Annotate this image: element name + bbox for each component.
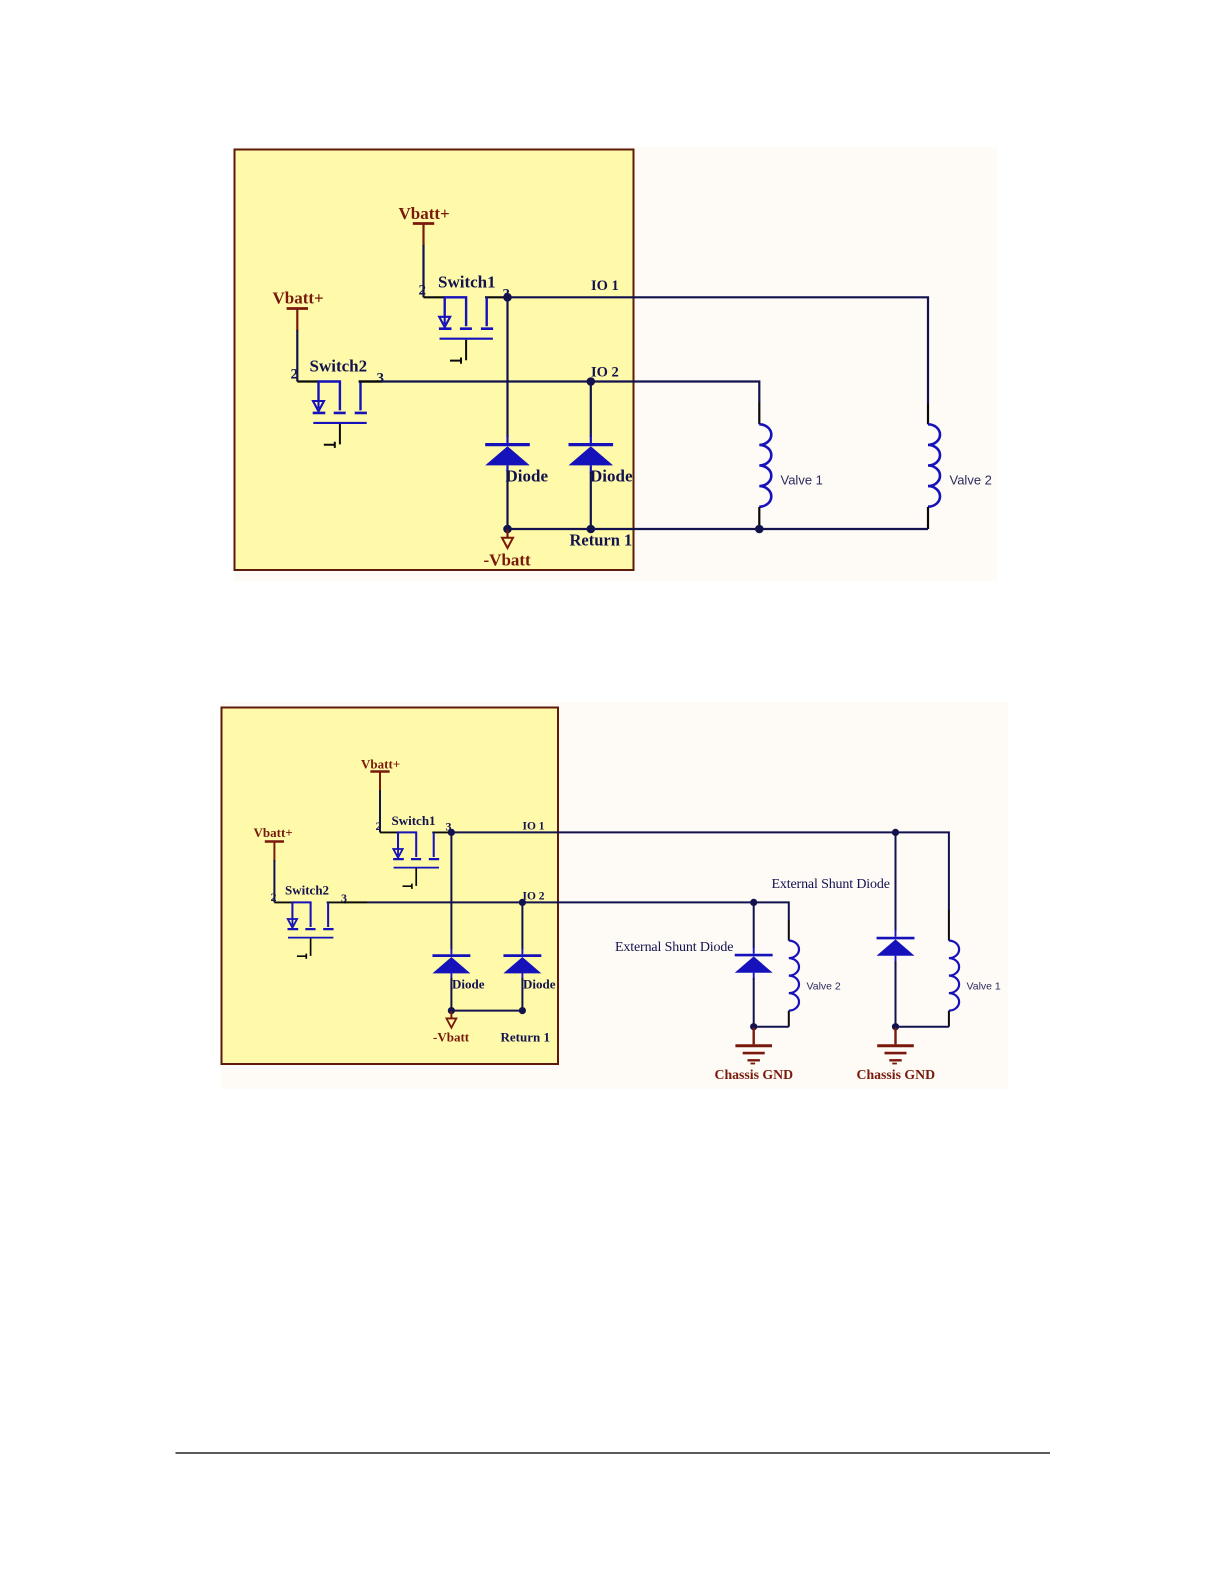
schematic background figure 1 bbox=[234, 147, 997, 581]
svg-text:Chassis GND: Chassis GND bbox=[857, 1067, 936, 1082]
svg-text:Valve 2: Valve 2 bbox=[807, 981, 841, 993]
net IO 1 wire (fig2) bbox=[451, 832, 949, 910]
svg-text:Switch2: Switch2 bbox=[285, 883, 329, 898]
yellow controller block figure 2 bbox=[222, 708, 559, 1065]
svg-text:Valve 1: Valve 1 bbox=[781, 473, 823, 488]
ground chassis GND right bbox=[877, 1028, 914, 1064]
svg-text:Switch1: Switch1 bbox=[392, 813, 436, 828]
wire external shunt diode left from IO 2 bbox=[753, 905, 755, 948]
net IO 2 wire bbox=[359, 380, 381, 382]
inductor Valve 1 (fig2) bbox=[949, 941, 959, 1011]
junction IO 2 / Diode2 bbox=[587, 377, 596, 386]
wire IO 2 bbox=[381, 382, 759, 403]
junction chassis right bbox=[892, 1023, 899, 1030]
svg-text:Diode: Diode bbox=[590, 467, 633, 486]
power symbol Vbatt+ (Switch1, fig2) bbox=[370, 772, 389, 792]
wire IO2 junction down to Diode2 (fig2) bbox=[521, 905, 523, 949]
svg-text:External Shunt Diode: External Shunt Diode bbox=[615, 940, 733, 955]
svg-text:2: 2 bbox=[376, 819, 382, 833]
svg-text:Return 1: Return 1 bbox=[570, 531, 633, 550]
net Return 1 wire (fig2) bbox=[451, 1010, 522, 1012]
svg-text:2: 2 bbox=[271, 890, 277, 904]
ground chassis GND left bbox=[735, 1028, 772, 1064]
net Return 1 wire bbox=[508, 528, 929, 530]
wire Switch1 pin3 down to Diode1 (fig2) bbox=[450, 835, 452, 949]
diode external shunt diode right bbox=[877, 930, 915, 962]
junction Valve 1 / Return 1 bbox=[755, 525, 764, 534]
inductor Valve 2 (fig2) bbox=[789, 941, 799, 1011]
footer rule bbox=[176, 1452, 1051, 1454]
svg-text:Diode: Diode bbox=[452, 977, 485, 992]
wire stub to Valve 1 coil top (fig2) bbox=[948, 910, 950, 941]
power symbol -Vbatt bbox=[502, 530, 513, 549]
svg-text:Valve 2: Valve 2 bbox=[950, 473, 992, 488]
svg-text:-Vbatt: -Vbatt bbox=[433, 1030, 470, 1045]
power symbol Vbatt+ (Switch1) bbox=[413, 224, 434, 246]
svg-text:Diode: Diode bbox=[523, 977, 556, 992]
wire Valve 1 bottom to chassis junction bbox=[896, 1026, 949, 1028]
diode Diode2 (fig2) bbox=[503, 948, 541, 980]
net IO 2 wire (fig2) bbox=[344, 901, 367, 903]
diode Diode1 bbox=[485, 435, 530, 473]
schematic background figure 2 bbox=[221, 702, 1008, 1089]
junction at Switch1 pin3 (fig2) bbox=[448, 829, 455, 836]
yellow controller block figure 1 bbox=[235, 150, 634, 571]
svg-text:Diode: Diode bbox=[506, 467, 549, 486]
wire stub to Valve 1 coil top bbox=[758, 402, 760, 424]
wire Valve 2 bottom stub bbox=[927, 507, 929, 529]
svg-text:Vbatt+: Vbatt+ bbox=[273, 289, 324, 308]
wire Valve 2 bottom stub (fig2) bbox=[788, 1011, 790, 1027]
wire Diode2 to Return 1 (fig2) bbox=[521, 978, 523, 1011]
wire external shunt diode right to chassis junction bbox=[895, 961, 897, 1027]
svg-text:Chassis GND: Chassis GND bbox=[715, 1067, 794, 1082]
junction IO 2 / external shunt diode left bbox=[750, 899, 757, 906]
junction IO 2 / Diode2 (fig2) bbox=[519, 899, 526, 906]
wire Diode1 to Return 1 (fig2) bbox=[450, 978, 452, 1011]
inductor Valve 1 bbox=[759, 424, 771, 506]
svg-text:Return 1: Return 1 bbox=[501, 1030, 550, 1045]
wire external shunt diode left to chassis junction bbox=[753, 978, 755, 1027]
svg-text:Vbatt+: Vbatt+ bbox=[254, 825, 293, 840]
power symbol -Vbatt (fig2) bbox=[446, 1011, 456, 1028]
svg-text:Vbatt+: Vbatt+ bbox=[399, 204, 450, 223]
svg-text:IO 2: IO 2 bbox=[591, 365, 619, 381]
junction at Switch1 pin3 bbox=[503, 293, 512, 302]
svg-text:IO 2: IO 2 bbox=[523, 891, 545, 903]
power symbol Vbatt+ (Switch2, fig2) bbox=[265, 842, 284, 862]
svg-text:Switch1: Switch1 bbox=[438, 273, 496, 292]
junction Diode2 / Return 1 (fig2) bbox=[519, 1007, 526, 1014]
svg-text:Valve 1: Valve 1 bbox=[967, 981, 1001, 993]
junction Diode1 / Return 1 (fig2) bbox=[448, 1007, 455, 1014]
wire external shunt diode right from IO 1 bbox=[895, 835, 897, 931]
wire Valve 1 bottom stub (fig2) bbox=[948, 1011, 950, 1027]
wire Diode1 to Return 1 bbox=[506, 472, 508, 529]
transistor Switch1 (fig2) bbox=[380, 832, 452, 888]
diode Diode1 (fig2) bbox=[432, 948, 470, 980]
transistor Switch2 (fig2) bbox=[274, 902, 346, 958]
net IO 1 wire bbox=[508, 297, 929, 404]
wire Switch1 pin3 down to Diode1 bbox=[506, 300, 508, 437]
svg-text:Switch2: Switch2 bbox=[310, 357, 368, 376]
diode external shunt diode left bbox=[735, 947, 773, 979]
transistor Switch2 bbox=[297, 382, 382, 448]
svg-text:2: 2 bbox=[291, 367, 299, 383]
junction chassis left bbox=[750, 1023, 757, 1030]
junction Diode1 / Return 1 bbox=[503, 525, 512, 534]
wire Valve 1 bottom stub bbox=[758, 507, 760, 529]
wire Valve 2 bottom to chassis junction bbox=[754, 1026, 789, 1028]
junction IO 1 / external shunt diode right bbox=[892, 829, 899, 836]
wire Vbatt+ to Switch1 pin2 bbox=[422, 245, 424, 297]
wire IO 2 (fig2) bbox=[367, 902, 789, 920]
svg-text:2: 2 bbox=[419, 283, 427, 299]
diode Diode2 bbox=[569, 435, 614, 473]
wire Vbatt+ to Switch1 pin2 (fig2) bbox=[379, 790, 381, 832]
inductor Valve 2 bbox=[928, 424, 940, 506]
svg-text:3: 3 bbox=[377, 371, 385, 387]
svg-text:IO 1: IO 1 bbox=[591, 278, 619, 294]
junction Diode2 / Return 1 bbox=[587, 525, 596, 534]
wire Vbatt+ to Switch2 pin2 (fig2) bbox=[273, 860, 275, 902]
svg-text:External Shunt Diode: External Shunt Diode bbox=[772, 877, 890, 892]
svg-text:Vbatt+: Vbatt+ bbox=[361, 757, 400, 772]
wire Vbatt+ to Switch2 pin2 bbox=[296, 330, 298, 382]
wire Diode2 to Return 1 bbox=[590, 472, 592, 529]
power symbol Vbatt+ (Switch2) bbox=[287, 309, 308, 331]
wire stub to Valve 2 coil top bbox=[927, 404, 929, 424]
transistor Switch1 bbox=[424, 297, 509, 363]
wire stub to Valve 2 coil top (fig2) bbox=[788, 920, 790, 941]
svg-text:IO 1: IO 1 bbox=[523, 821, 545, 833]
svg-text:-Vbatt: -Vbatt bbox=[484, 551, 532, 570]
wire IO2 junction down to Diode2 bbox=[590, 384, 592, 437]
